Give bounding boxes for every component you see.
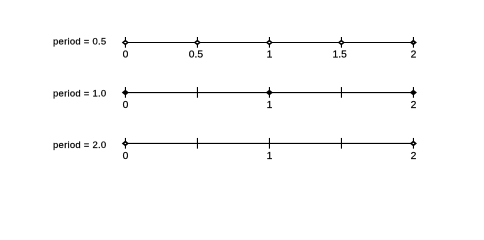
row 1 axis line bbox=[125, 42, 414, 44]
svg-text:period = 0.5: period = 0.5 bbox=[53, 37, 106, 48]
row 1 tick at x=125 bbox=[124, 37, 126, 48]
row 2 marker at x=413 (solid diamond) bbox=[410, 90, 417, 96]
row 3 tick at x=269 bbox=[268, 138, 270, 149]
svg-text:0.5: 0.5 bbox=[189, 50, 204, 61]
row 1 marker at x=269 (open diamond) bbox=[266, 40, 273, 46]
row 3 marker at x=413 (pin2 diamond) bbox=[410, 141, 417, 147]
row 1 tick at x=413 bbox=[412, 37, 414, 48]
row 3 tick at x=197 bbox=[196, 138, 198, 149]
svg-text:period = 2.0: period = 2.0 bbox=[53, 140, 106, 151]
row 3 axis line bbox=[125, 142, 414, 144]
svg-text:2: 2 bbox=[411, 50, 417, 61]
svg-text:period = 1.0: period = 1.0 bbox=[53, 88, 106, 99]
svg-text:1: 1 bbox=[267, 100, 273, 111]
row 2 axis line bbox=[125, 92, 414, 94]
svg-text:0: 0 bbox=[123, 50, 129, 61]
row 3 tick at x=125 bbox=[124, 138, 126, 149]
row 2 tick at x=197 bbox=[196, 87, 198, 98]
row 2 marker at x=125 (solid diamond) bbox=[122, 90, 129, 96]
row 1 tick at x=197 bbox=[196, 37, 198, 48]
row 2 tick at x=413 bbox=[412, 87, 414, 98]
svg-text:0: 0 bbox=[123, 151, 129, 162]
row 1 tick at x=341 bbox=[340, 37, 342, 48]
row 1 marker at x=413 (pin1 diamond) bbox=[410, 40, 417, 46]
row 2 marker at x=269 (solid diamond) bbox=[266, 90, 273, 96]
row 2 tick at x=125 bbox=[124, 87, 126, 98]
row 1 marker at x=341 (open diamond) bbox=[338, 40, 345, 46]
row 1 marker at x=197 (open diamond) bbox=[194, 40, 201, 46]
row 1 marker at x=125 (open diamond) bbox=[122, 40, 129, 46]
svg-text:2: 2 bbox=[411, 100, 417, 111]
row 2 tick at x=341 bbox=[340, 87, 342, 98]
row 1 tick at x=269 bbox=[268, 37, 270, 48]
svg-text:2: 2 bbox=[411, 151, 417, 162]
row 3 tick at x=341 bbox=[340, 138, 342, 149]
row 2 tick at x=269 bbox=[268, 87, 270, 98]
row 3 marker at x=125 (pin2 diamond) bbox=[122, 141, 129, 147]
row 3 tick at x=413 bbox=[412, 138, 414, 149]
svg-text:1: 1 bbox=[267, 50, 273, 61]
svg-text:1: 1 bbox=[267, 151, 273, 162]
svg-text:0: 0 bbox=[123, 100, 129, 111]
svg-text:1.5: 1.5 bbox=[332, 50, 347, 61]
